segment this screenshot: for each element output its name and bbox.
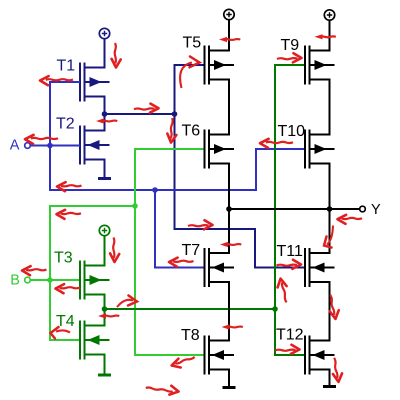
wire Abar drop to T11 row [254, 228, 256, 269]
transistor T6 [205, 130, 235, 169]
wire T6 source to Y node [228, 163, 230, 211]
current arrow right on T9 gate wire [277, 53, 302, 62]
wire Y node to T7 drain [228, 209, 230, 254]
junction B branch [132, 203, 138, 209]
current arrow left on T1 gate wire [40, 76, 73, 85]
ground (T8) [223, 386, 236, 389]
current arrow left above A input [25, 135, 58, 144]
junction Bbar branch [272, 306, 278, 312]
wire Abar horizontal [104, 113, 176, 115]
wire junction to T2 drain [104, 114, 106, 132]
current arrow down on Abar riser [167, 118, 178, 143]
wire T1 source down [104, 96, 106, 116]
current arrow crossing T3-T4 junction [98, 313, 119, 318]
wire B input [30, 279, 50, 281]
junction Y left stack [226, 206, 232, 212]
transistor T1 [80, 63, 110, 102]
svg-text:T10: T10 [278, 123, 306, 140]
wire output rail Y [229, 208, 360, 210]
wire T10 source to Y node [329, 163, 331, 211]
wire Abar lower horizontal [174, 228, 257, 230]
svg-text:B: B [10, 273, 20, 289]
current arrow right bottom center [145, 382, 179, 396]
transistor T9 [305, 46, 335, 85]
wire A input [30, 145, 50, 147]
junction Abar branch [172, 111, 178, 117]
wire supply to T5 drain [228, 20, 230, 52]
current arrow down at T12 ground [331, 357, 343, 383]
power supply + (T1) [99, 28, 109, 38]
svg-text:T12: T12 [276, 327, 304, 344]
transistor T3 [80, 261, 110, 300]
terminal A [25, 143, 31, 149]
svg-text:T1: T1 [57, 58, 76, 75]
svg-text:T8: T8 [181, 327, 200, 344]
current arrow crossing T7-T8 wire [222, 324, 243, 329]
wire supply to T9 drain [329, 20, 331, 51]
svg-text:T3: T3 [54, 250, 73, 267]
junction B input [47, 277, 53, 283]
current arrow left below B wire [56, 284, 81, 293]
svg-text:T7: T7 [182, 242, 201, 259]
current arrow down at T3 supply [110, 238, 119, 263]
svg-text:T9: T9 [281, 37, 300, 54]
power supply + (T5) [224, 9, 234, 19]
transistor T8 [205, 336, 235, 375]
wire B to T8 gate [134, 354, 206, 356]
wire B to T3 gate [49, 279, 80, 281]
transistor T10 [305, 130, 335, 169]
transistor T7 [205, 248, 235, 287]
junction A at T7 branch [152, 187, 158, 193]
svg-text:T2: T2 [56, 116, 75, 133]
current arrow curved at T5 gate [180, 57, 199, 89]
wire B vertical [49, 205, 51, 341]
wire Y node to T11 drain [329, 209, 331, 254]
power supply + (T9) [324, 10, 334, 20]
wire Abar to T11 gate [254, 267, 305, 269]
power supply + (T3) [99, 225, 109, 235]
wire Bbar vertical riser [274, 64, 276, 356]
transistor T4 [80, 321, 110, 360]
junction A input [47, 143, 53, 149]
wire A vertical [49, 81, 51, 191]
current arrow left at output Y [338, 215, 363, 224]
wire junction to T4 drain [104, 309, 106, 327]
transistor T5 [205, 46, 235, 85]
svg-text:T11: T11 [277, 243, 303, 260]
svg-text:A: A [10, 137, 20, 153]
current arrow crossing Y-T7 wire [220, 242, 241, 247]
wire A down to T7 gate row [154, 189, 156, 269]
current arrow left above A long wire [57, 182, 82, 191]
current arrow left on B top wire [57, 210, 82, 219]
wire T12 source to ground [329, 369, 331, 386]
current arrow down T11-T12 wire [327, 294, 340, 320]
current arrow left on T7 gate wire [169, 258, 194, 267]
current arrow right on Abar lower wire [188, 220, 213, 229]
current arrow crossing T5 supply lead [219, 37, 240, 42]
wire T3 source down [104, 294, 106, 311]
wire A riser to T10 row [255, 148, 257, 191]
current arrow left above B input [22, 266, 47, 275]
current arrow right on T12 gate wire [275, 345, 300, 354]
wire T5 source to T6 drain [228, 79, 230, 136]
wire T7 source to T8 drain [228, 282, 230, 342]
wire A to T10 gate [255, 148, 305, 150]
current arrow left at T8 ground [170, 354, 196, 370]
wire Abar vertical riser [174, 64, 176, 230]
wire supply to T1 drain [104, 39, 106, 69]
current arrow crossing T9 supply lead [315, 34, 336, 39]
wire supply to T3 drain [104, 236, 106, 267]
wire B to T4 gate [49, 339, 80, 341]
wire A long horizontal [49, 189, 257, 191]
wire Bbar to T9 gate [274, 64, 305, 66]
wire Bbar to T12 gate [274, 354, 305, 356]
wire Bbar horizontal [104, 308, 277, 310]
wire T8 source to ground [228, 369, 230, 387]
wire T9 source to T10 drain [329, 79, 331, 136]
current arrow up on Bbar riser [276, 278, 290, 304]
wire A to T7 gate [154, 267, 206, 269]
current arrow down at T1 supply [112, 43, 121, 68]
junction node Bbar (T3/T4 drains) [102, 306, 108, 312]
svg-text:T5: T5 [183, 35, 202, 52]
terminal B [25, 277, 31, 283]
ground (T12) [323, 385, 336, 388]
wire Abar to T5 gate [174, 64, 205, 66]
wire B vertical riser [134, 148, 136, 356]
current arrow curved at Bbar junction [117, 296, 137, 308]
wire A to T2 gate [49, 145, 80, 147]
junction Y right stack [327, 206, 333, 212]
current arrow right on Abar wire [134, 104, 159, 113]
current arrow right on T11 gate wire [277, 260, 302, 269]
wire T4 source to ground [104, 354, 106, 375]
junction node Abar (T1/T2 drains) [102, 111, 108, 117]
wire T2 source to ground [104, 159, 106, 178]
wire A to T1 gate [49, 81, 80, 83]
current arrow bent at T4 gate [51, 327, 71, 339]
transistor T12 [305, 336, 335, 375]
current arrow left on T10 gate wire [260, 139, 293, 148]
svg-text:T6: T6 [182, 123, 201, 140]
terminal Y [360, 206, 366, 212]
transistor T2 [80, 126, 110, 165]
wire B to T6 gate [134, 148, 206, 150]
wire T11 source to T12 drain [329, 282, 331, 342]
current arrow curved below Y node [324, 226, 333, 248]
wire B top horizontal [49, 205, 136, 207]
svg-text:Y: Y [371, 202, 381, 218]
current arrow crossing T1-T2 junction [96, 118, 117, 123]
ground (T4) [98, 374, 111, 377]
ground (T2) [98, 177, 111, 180]
transistor T11 [305, 248, 335, 287]
